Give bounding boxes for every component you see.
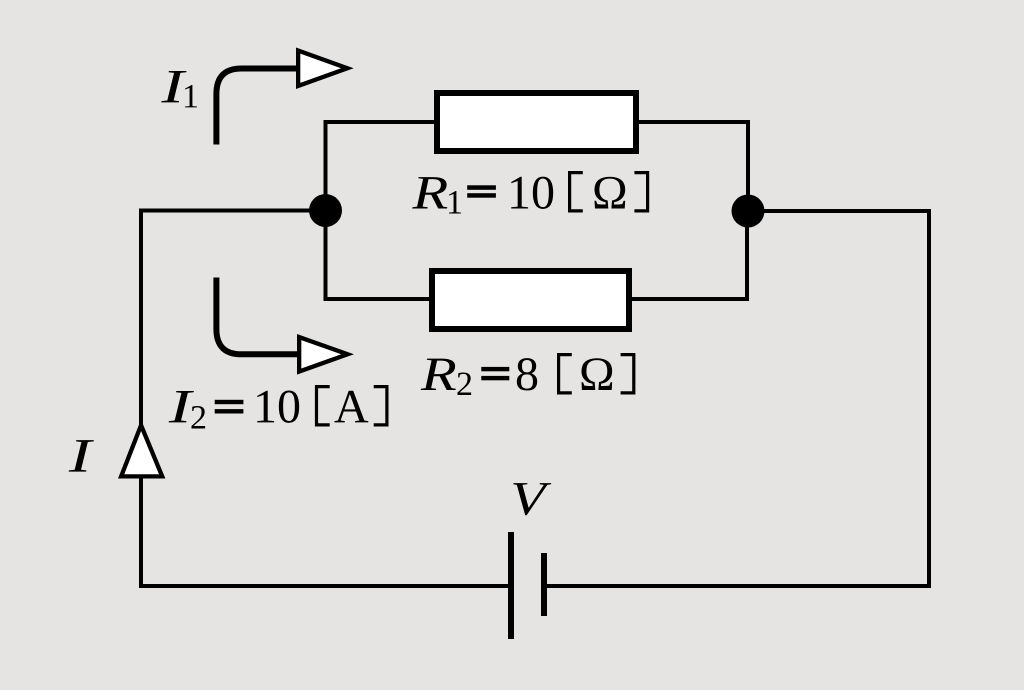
label I1: letter I	[161, 71, 186, 102]
label R2: letter R	[421, 359, 456, 390]
wire: left node down to R2	[326, 211, 433, 300]
label R1: equals sign	[467, 185, 496, 197]
label I2: value 10	[257, 390, 299, 422]
arrowhead I1	[296, 48, 354, 90]
label R1: subscript 1	[449, 191, 461, 213]
wire: R1 right to right node	[636, 122, 748, 211]
label I2: unit A	[334, 391, 368, 423]
wire: left horizontal into left node	[141, 209, 326, 213]
label R2: subscript 2	[457, 372, 471, 395]
label V	[513, 483, 551, 515]
wire: R2 right to right node	[629, 211, 747, 299]
resistor R1	[437, 93, 636, 151]
arrow I (triangle on left wire)	[118, 420, 165, 479]
wire: left node up to R1	[326, 122, 438, 211]
label R1: left bracket	[568, 171, 583, 212]
label R1: value 10	[511, 177, 553, 209]
node A (left junction dot)	[309, 194, 342, 227]
label I	[69, 440, 94, 471]
label R1: right bracket	[634, 171, 649, 212]
battery V short plate	[541, 553, 547, 616]
label I1: subscript 1	[185, 85, 197, 107]
arrow I1 shaft (curved)	[216, 69, 299, 145]
arrowhead I2	[297, 334, 354, 375]
label I2: left bracket	[315, 385, 330, 427]
label R1: letter R	[412, 177, 447, 208]
arrow I2 shaft (curved)	[216, 278, 300, 355]
label R2: left bracket	[557, 353, 572, 395]
wire: bottom right from battery short plate	[547, 584, 931, 588]
wire: bottom left to battery long plate	[139, 584, 508, 588]
resistor R2	[432, 271, 629, 329]
label R2: omega	[581, 358, 612, 390]
label I2: equals sign	[215, 400, 244, 414]
label I2: letter I	[169, 391, 194, 422]
label I2: right bracket	[374, 385, 389, 427]
label R1: omega	[594, 177, 625, 209]
wire: right vertical outer	[927, 211, 931, 588]
wire: left vertical outer	[139, 209, 143, 587]
label R2: value 8	[517, 358, 537, 390]
label I2: subscript 2	[191, 406, 205, 429]
battery V long plate	[508, 532, 514, 639]
label R2: right bracket	[621, 353, 636, 395]
node B (right junction dot)	[732, 195, 765, 228]
label R2: equals sign	[481, 367, 509, 380]
wire: right horizontal from right node	[748, 209, 931, 213]
